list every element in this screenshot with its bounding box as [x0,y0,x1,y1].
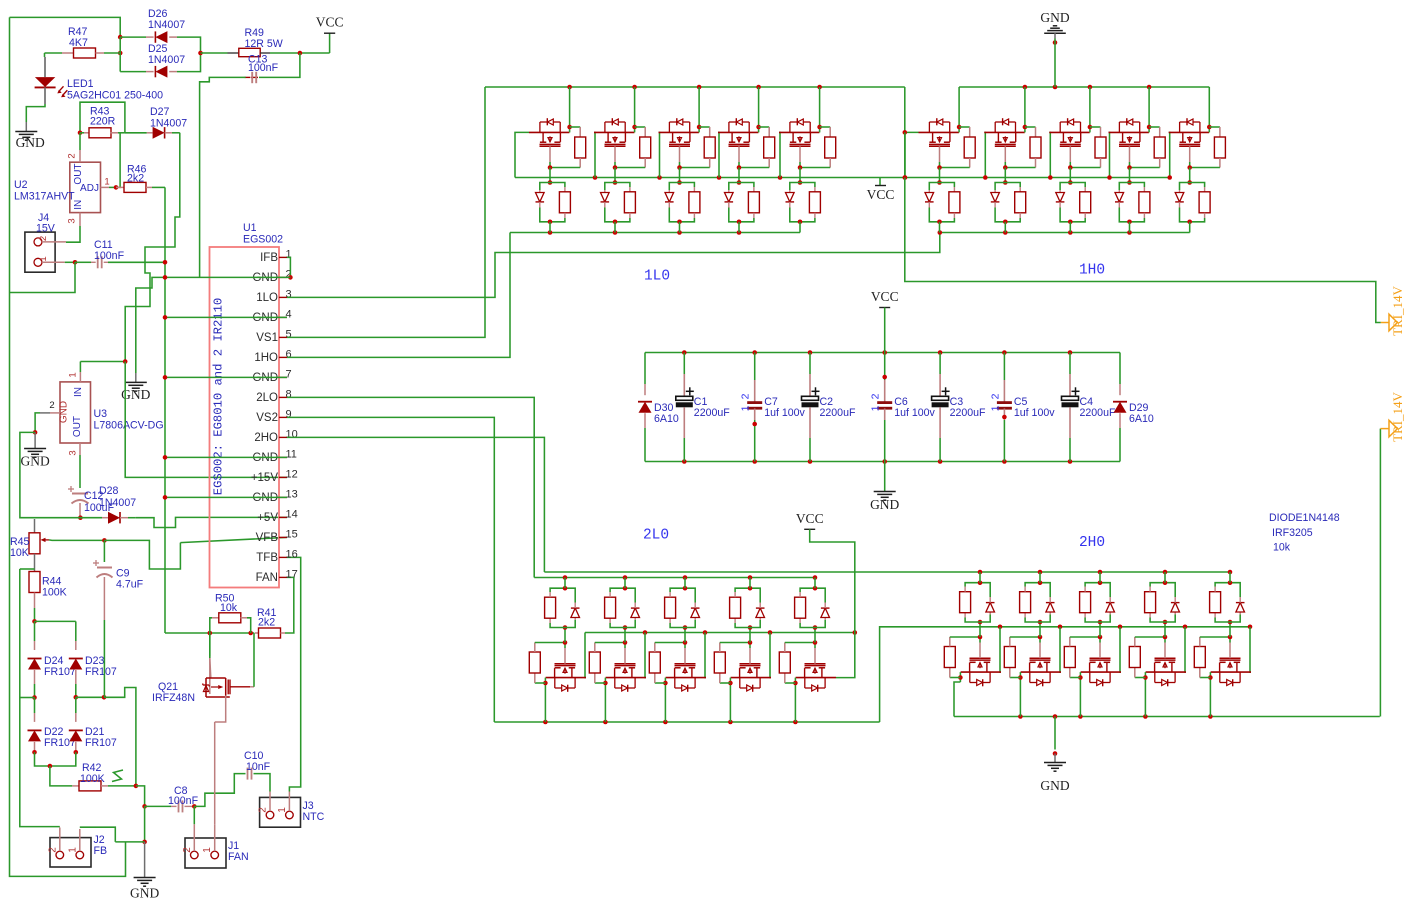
svg-text:2k2: 2k2 [258,617,275,629]
wire drain drop [569,87,571,127]
capacitor C1 2200uF [683,353,685,375]
wire pin4 GND row [165,316,287,318]
potentiometer R45 [34,519,36,533]
wire pin11 GND row [165,456,287,458]
svg-text:1: 1 [67,847,78,853]
svg-text:9: 9 [286,409,292,421]
wire pin13 GND row [165,496,287,498]
diode of pair [786,193,795,202]
resistor of pair [753,187,755,192]
svg-text:2: 2 [740,393,752,399]
resistor of pair [549,618,551,623]
resistor R47 [45,52,63,54]
wire source node [535,642,565,644]
power VCC cap bank [879,307,890,309]
node rail junction [663,720,668,725]
node gate bus junction [853,630,858,635]
svg-text:8: 8 [286,389,292,401]
wire J2 pin1 link [80,827,116,842]
svg-text:100nF: 100nF [248,62,279,74]
wire drain drop [544,683,546,722]
svg-text:14: 14 [286,509,298,521]
wire cap bank top rail [645,352,1120,354]
power VCC gate bus tap [879,178,881,186]
wire to bus [679,222,681,233]
svg-text:1: 1 [277,807,288,813]
wire pin7 GND row [165,376,287,378]
wire gate riser [770,633,771,678]
svg-text:17: 17 [286,569,298,581]
wire +15V net routing [125,133,180,362]
resistor of pair [964,613,966,618]
gate network pair [623,625,628,630]
wire GND trunk upper branch to GND symbol [136,277,165,373]
wire pin10 2HO route [287,437,544,572]
wire drain [1089,127,1091,132]
node rail junction [817,85,822,90]
wire gate riser [1250,627,1251,672]
pin 6 1HO [279,356,287,358]
svg-text:FAN: FAN [256,572,278,584]
wire gate riser [779,132,780,177]
svg-text:DIODE1N4148: DIODE1N4148 [1269,512,1340,524]
node gate bus junction [643,630,648,635]
ground GND led [25,122,27,132]
svg-text:VCC: VCC [871,289,899,304]
svg-text:ADJ: ADJ [80,183,99,194]
wire drain [1079,672,1081,677]
svg-text:5: 5 [286,329,292,341]
node gate bus junction [717,175,722,180]
wire to bus [1164,572,1166,583]
svg-text:2H0: 2H0 [1079,535,1105,551]
gate network pair [1003,180,1008,185]
node bus junction [563,575,568,580]
wire gate riser [905,132,919,177]
resistor of pair [1214,613,1216,618]
wire drain [604,678,606,683]
wire drain [1208,127,1210,132]
wire to bus [549,222,551,233]
svg-text:10k: 10k [1273,542,1291,554]
svg-text:6A10: 6A10 [654,413,679,425]
resistor R42 [50,766,72,786]
wire drain drop [794,683,796,722]
diode of pair [601,193,610,202]
svg-text:6: 6 [286,349,292,361]
diode of pair [991,193,1000,202]
svg-text:4K7: 4K7 [69,37,88,49]
svg-text:7: 7 [286,369,292,381]
gate network pair [978,620,983,625]
ground GND u3 left [34,432,36,448]
svg-text:1uf 100v: 1uf 100v [1014,407,1055,419]
gate-drain resistor [570,126,581,128]
diode D22 [34,698,36,714]
gate network pair [677,180,682,185]
svg-text:1L0: 1L0 [644,269,670,285]
wire to bus [684,578,686,589]
gate network pair [1163,620,1168,625]
svg-text:13: 13 [286,489,298,501]
node gate bus junction [703,630,708,635]
mosfet [1081,671,1121,673]
gate-drain resistor [535,682,546,684]
resistor of pair [669,618,671,623]
svg-text:GND: GND [16,135,45,150]
resistor of pair [1084,187,1086,192]
svg-text:LED1: LED1 [67,78,94,90]
wire drain [1024,127,1026,132]
wire source node [1190,167,1220,169]
pin 10 2HO [279,436,287,438]
wire 1L0 source bus [510,232,800,234]
wire drain drop [1089,87,1091,127]
svg-text:VCC: VCC [867,187,895,202]
diode of pair [631,608,640,617]
svg-text:EGS002: EG8010 and 2 IR2110: EGS002: EG8010 and 2 IR2110 [212,298,226,495]
gate-drain resistor [655,682,666,684]
node rail junction [1023,85,1028,90]
capacitor C8 [142,804,147,809]
wire GND bottom-left [144,806,146,842]
wire diode anodes join [35,752,76,766]
wire 1H0 source bus [940,232,1190,234]
node D26/D25 left junction [118,35,123,40]
svg-text:3: 3 [67,218,78,223]
diode D23 [75,621,77,641]
wire source node [1200,636,1230,638]
diode of pair [925,193,934,202]
diode of pair [1046,603,1055,612]
wire gate riser [585,633,586,678]
wire drain [958,127,960,132]
svg-text:GND: GND [252,492,278,504]
wire source node [1070,636,1100,638]
svg-text:1: 1 [740,405,752,411]
svg-text:TRI_14V: TRI_14V [1390,391,1405,441]
node source bus junction [1127,230,1132,235]
mosfet [594,131,634,133]
wire J4 pin1 [42,261,65,263]
node cap bank junctions [938,350,943,355]
svg-text:GND: GND [1040,10,1069,25]
svg-text:VS2: VS2 [256,412,278,424]
wire to bus [939,222,941,233]
gate network pair [1098,620,1103,625]
wire D27 to ADJ [116,133,120,188]
node gate bus junction [1167,175,1172,180]
svg-text:100K: 100K [80,773,105,785]
mosfet [1049,131,1089,133]
svg-text:U3: U3 [94,408,108,420]
wire TFB to J3 [287,557,301,791]
wire gate riser [705,633,706,678]
diode of pair [725,193,734,202]
wire drain [794,678,796,683]
node gate bus junction [778,175,783,180]
wire to bus [749,578,751,589]
svg-text:10nF: 10nF [246,761,271,773]
wire drain drop [1019,678,1021,717]
diode D28 [80,517,102,519]
svg-text:OUT: OUT [72,416,83,437]
resistor of pair [564,187,566,192]
wire drain drop [664,683,666,722]
svg-text:IFB: IFB [260,252,278,264]
wire pin8 2LO route [287,397,534,577]
wire source node [739,167,769,169]
gate-drain resistor [1010,677,1021,679]
wire cap bank bottom rail [645,461,1120,463]
svg-text:U2: U2 [14,179,28,191]
wire drain drop [1144,678,1146,717]
connector J1 [185,838,226,868]
svg-text:L7806ACV-DG: L7806ACV-DG [94,420,164,432]
wire pin5 VS1 route [287,87,485,337]
mosfet [796,677,836,679]
pin 7 GND [279,376,287,378]
svg-text:2: 2 [182,847,193,853]
led LED1 [44,53,46,57]
wire 1L0 rail to 1H0 gates [904,87,906,132]
mosfet [529,131,569,133]
node cap bank junctions [682,350,687,355]
resistor of pair [609,618,611,623]
wire squiggle [112,770,123,782]
gate network pair [748,625,753,630]
node gate bus junction [1058,625,1063,630]
node rail junction [793,720,798,725]
resistor of pair [953,187,955,192]
wire 1H0 gate feed to TRI [905,178,1381,323]
wire gate riser [718,132,719,177]
wire drain drop [698,87,700,127]
wire pin3 1LO route [287,233,940,298]
svg-text:VCC: VCC [796,511,824,526]
wire Q21 drain [230,686,250,688]
wire gate riser [1049,132,1050,177]
diode of pair [1236,603,1245,612]
node cap bank junctions [808,350,813,355]
resistor of pair [1024,613,1026,618]
wire J4 pin2 [42,241,66,243]
diode D21 [75,697,77,713]
resistor of pair [1204,187,1206,192]
node bus junction [978,570,983,575]
node rail junction [1143,714,1148,719]
node diode mid junctions [32,695,37,700]
wire gate riser [1060,627,1061,672]
svg-text:1: 1 [870,405,882,411]
node gate bus junction [593,175,598,180]
diode of pair [1175,193,1184,202]
mosfet [919,131,959,133]
pin 15 VFB [279,536,287,538]
ground GND u3 right [135,373,137,382]
node gate bus junction [1107,175,1112,180]
wire drain drop [1148,87,1150,127]
svg-text:GND: GND [59,401,70,423]
connector J2 [50,838,91,867]
wire source node [550,167,580,169]
svg-text:2: 2 [49,400,54,411]
node rail junction [1088,85,1093,90]
pin 12 +15V [279,476,287,478]
wire top-left frame [10,17,121,37]
terminal TRI_14V lower [1379,429,1381,717]
node source bus junction [548,230,553,235]
node rail junction [756,85,761,90]
resistor of pair [799,618,801,623]
node rail junction [603,720,608,725]
gate-drain resistor [759,126,770,128]
gate network pair [798,180,803,185]
wire drain [1209,672,1211,677]
capacitor C9 [103,540,105,562]
resistor of pair [1149,613,1151,618]
connector J3 [260,797,301,827]
svg-text:2: 2 [989,393,1001,399]
mosfet [731,677,771,679]
resistor of pair [814,187,816,192]
gate-drain resistor [785,682,796,684]
wire drain [819,127,821,132]
wire R45 wiper [49,539,104,542]
gate-drain resistor [1135,677,1146,679]
resistor R41 [255,632,259,634]
gate network pair [548,180,553,185]
mosfet [606,677,646,679]
pin 16 TFB [279,556,287,558]
svg-text:NTC: NTC [303,811,325,823]
mosfet [666,677,706,679]
wire C10 branch [194,774,245,807]
svg-text:1HO: 1HO [254,352,278,364]
svg-text:11: 11 [286,449,297,461]
gate-drain resistor [595,682,606,684]
wire source node [595,642,625,644]
diode D30 6A10 [644,353,646,385]
svg-text:2200uF: 2200uF [820,407,856,419]
node bus junction [1228,570,1233,575]
gate network pair [683,625,688,630]
pin 17 FAN [279,576,287,578]
ground GND bottom-left [144,842,146,877]
svg-text:IN: IN [73,387,84,397]
wire +15V to pin12 [125,362,287,478]
wire drain drop [819,87,821,127]
wire +5V jog to pin14 [136,517,287,527]
wire pin9 VS2 route [287,417,494,722]
svg-text:12R 5W: 12R 5W [245,38,283,50]
wire gate riser [1185,627,1186,672]
pin 2 GND [279,276,287,278]
svg-text:1uf 100v: 1uf 100v [764,407,805,419]
node gate bus junction [983,175,988,180]
svg-text:100K: 100K [42,587,67,599]
wire to bus [1069,222,1071,233]
resistor of pair [734,618,736,623]
svg-text:12: 12 [286,469,298,481]
diode of pair [536,193,545,202]
resistor of pair [1084,613,1086,618]
wire gnd left branch [20,432,35,517]
svg-text:IRFZ48N: IRFZ48N [152,692,195,704]
diode of pair [1056,193,1065,202]
wire source node [1130,167,1160,169]
node rail junction [1208,714,1213,719]
svg-text:2: 2 [870,393,882,399]
svg-text:GND: GND [252,272,278,284]
wire U3 pin1 [80,361,125,363]
mosfet [1169,131,1209,133]
diode of pair [756,608,765,617]
wire 2H0 gate bus [880,627,1250,722]
svg-text:GND: GND [130,886,159,901]
node rail junction [1078,714,1083,719]
wire drain drop [959,678,961,683]
mosfet [718,131,758,133]
ground GND bottom [1054,717,1056,750]
resistor R43 with loop [80,102,125,133]
svg-text:4.7uF: 4.7uF [116,579,144,591]
pin 13 GND [279,496,287,498]
wire gate riser [984,132,985,177]
wire drain [544,678,546,683]
node gate bus junction [1048,175,1053,180]
wire LED to ground [26,104,45,122]
svg-text:1N4007: 1N4007 [148,54,185,66]
svg-text:U1: U1 [243,222,257,234]
wire source node [1005,167,1035,169]
svg-text:GND: GND [1040,778,1069,793]
gate-drain resistor [720,682,731,684]
wire left outer frame [10,17,126,876]
wire 1L0 gate bus [515,177,1170,179]
svg-text:GND: GND [20,454,49,469]
gate-drain resistor [959,126,970,128]
node bus junction [623,575,628,580]
svg-text:1: 1 [104,177,109,188]
node rail junction [697,85,702,90]
wire source node [1010,636,1040,638]
wire drain [698,127,700,132]
svg-text:2HO: 2HO [254,432,278,444]
node rail junction [728,720,733,725]
svg-text:2: 2 [47,847,58,853]
svg-text:220R: 220R [90,116,116,128]
wire gate riser [645,633,646,678]
node source bus junction [613,230,618,235]
node source bus junction [1003,230,1008,235]
svg-text:1N4007: 1N4007 [148,19,185,31]
svg-text:2: 2 [258,807,269,813]
svg-text:TFB: TFB [256,552,278,564]
wire 2H0 top bus 2HO [544,571,1230,573]
svg-text:GND: GND [870,497,899,512]
node gate bus junction [1118,625,1123,630]
diode of pair [571,608,580,617]
svg-text:5AG2HC01 250-400: 5AG2HC01 250-400 [67,90,163,102]
node C8 right [192,804,197,809]
node gate bus junction [903,175,908,180]
svg-text:OUT: OUT [73,163,84,184]
wire drain drop [604,683,606,722]
node source bus junction [677,230,682,235]
svg-text:FB: FB [94,845,108,857]
ic U2 LM317 [70,162,101,212]
